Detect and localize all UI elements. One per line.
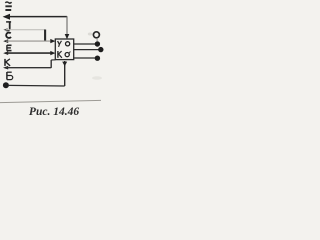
wire w1 (top wire y=16.5) <box>7 16 67 18</box>
wire w4 (y=53) <box>6 52 51 54</box>
paper smudge bottom right <box>92 76 102 80</box>
wire w3 (faint, y=41) <box>6 40 51 42</box>
paper smudge near ring <box>88 33 92 36</box>
contact tick lower-right <box>69 52 70 53</box>
wire r3 (right output 3) <box>74 57 95 59</box>
wire r2 (right output 2) <box>74 49 99 51</box>
terminal arrow T2 <box>3 28 7 31</box>
terminal arrow T1 <box>3 14 10 20</box>
wire w2 vertical drop at x=45 <box>44 30 46 42</box>
ring stem <box>96 38 98 41</box>
caption Fig. 14.46 <box>2 106 106 119</box>
wire w5 vertical rise to box bottom <box>50 60 52 68</box>
terminal arrow T4 <box>3 51 8 55</box>
wire w1 vertical drop at x=67 <box>66 16 68 35</box>
output dot D1 <box>95 41 100 46</box>
wire w6 (bottom wire y=85.5) <box>8 84 65 87</box>
ring terminal top-right <box>93 32 99 38</box>
wire w5 (y=67.6) <box>6 67 51 69</box>
arrowhead below box pointing down <box>62 62 67 67</box>
faint rule above caption <box>0 100 101 102</box>
box glyph K (lower-left) <box>58 51 62 58</box>
terminal arrow T5 <box>3 66 8 70</box>
contact circle lower-right <box>65 53 69 57</box>
wire w6 vertical rise to box bottom <box>64 61 66 86</box>
node label B (terminal 6 label) <box>7 72 13 80</box>
terminal arrow T3 <box>3 39 8 43</box>
wire w5 jog to box corner <box>51 59 55 61</box>
contact circle upper-right <box>66 42 70 46</box>
terminal dot T6 <box>3 82 9 88</box>
node label C (terminal 3 label) <box>6 33 11 38</box>
relay box U1 <box>55 39 73 60</box>
wire w2 (faint, y=29.6) <box>6 29 45 31</box>
paper background <box>0 0 104 124</box>
wire r1 (right output 1) <box>74 43 95 45</box>
box glyph Y (upper-left) <box>58 41 62 47</box>
output dot D3 <box>95 56 100 61</box>
arrowhead into box top <box>65 34 70 39</box>
node label E (terminal 4 label) <box>7 45 12 51</box>
node label J (terminal 2 label) <box>6 21 11 30</box>
output dot D2 <box>98 47 103 52</box>
node label K (terminal 5 label) <box>5 59 10 66</box>
arrowhead into box left (lower) <box>50 51 55 55</box>
arrowhead into box left (upper) <box>50 39 55 43</box>
node label Z~ (terminal 1 label) <box>5 2 12 10</box>
